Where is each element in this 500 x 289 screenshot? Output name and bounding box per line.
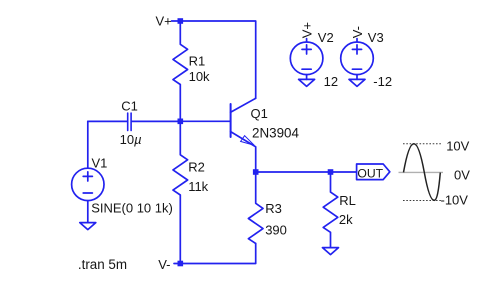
svg-text:V1: V1 (92, 155, 108, 170)
svg-text:R2: R2 (188, 159, 205, 174)
svg-text:2N3904: 2N3904 (252, 125, 299, 140)
svg-text:R3: R3 (265, 201, 282, 216)
svg-text:10k: 10k (189, 69, 210, 84)
svg-text:V2: V2 (318, 30, 334, 45)
svg-text:OUT: OUT (357, 166, 383, 180)
svg-text:V-: V- (350, 26, 365, 38)
svg-text:10µ: 10µ (120, 132, 142, 147)
svg-text:-12: -12 (373, 74, 392, 89)
svg-text:10V: 10V (446, 139, 469, 154)
svg-text:-10V: -10V (441, 193, 469, 208)
svg-text:V+: V+ (299, 22, 314, 38)
svg-text:RL: RL (339, 193, 356, 208)
svg-text:390: 390 (265, 223, 287, 238)
svg-text:12: 12 (324, 74, 338, 89)
svg-text:11k: 11k (188, 179, 208, 194)
svg-text:SINE(0 10 1k): SINE(0 10 1k) (91, 201, 173, 216)
svg-text:V3: V3 (368, 30, 384, 45)
svg-text:2k: 2k (339, 212, 353, 227)
svg-text:C1: C1 (121, 98, 138, 113)
svg-text:V-: V- (158, 257, 170, 272)
svg-text:0V: 0V (454, 168, 470, 183)
svg-text:Q1: Q1 (251, 106, 268, 121)
svg-text:V+: V+ (156, 14, 172, 29)
svg-text:.tran 5m: .tran 5m (78, 257, 127, 272)
svg-text:R1: R1 (189, 53, 206, 68)
